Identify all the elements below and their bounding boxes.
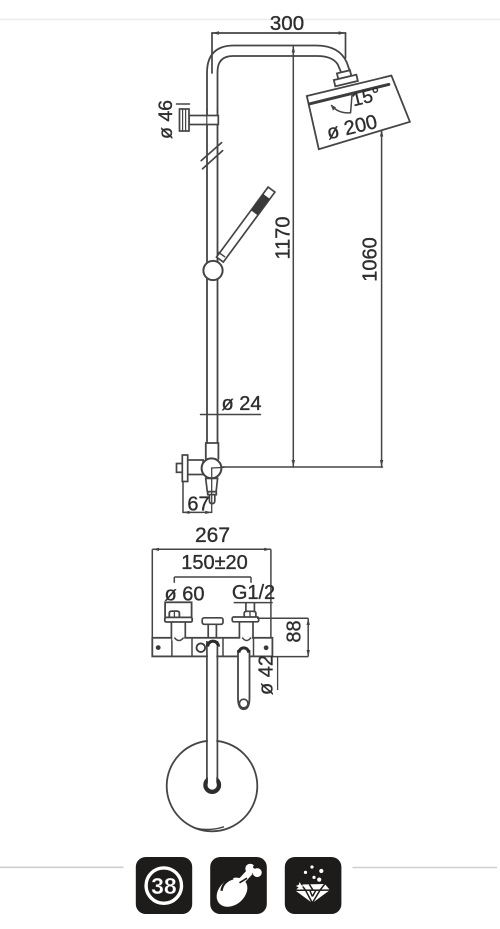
left neck notch [172, 637, 184, 641]
dim 267 [152, 549, 271, 638]
body screw dots [156, 645, 161, 650]
valve joint line [206, 442, 219, 444]
sparkles [296, 882, 304, 890]
shower head face plate line [310, 84, 389, 103]
hub ring [205, 778, 219, 792]
dia42 tube front view [238, 650, 250, 709]
dim 67 [182, 481, 184, 512]
dia24 leader [201, 414, 261, 416]
svg-text:88: 88 [284, 620, 306, 642]
svg-text:300: 300 [270, 12, 304, 35]
slider [203, 261, 222, 280]
icon 38C thermostatic [136, 857, 192, 914]
svg-text:ø 46: ø 46 [155, 100, 177, 139]
centre line down to 67 [211, 468, 213, 512]
dia46 leader [177, 103, 190, 105]
big shower plate circle [167, 741, 258, 832]
svg-text:ø 24: ø 24 [221, 393, 261, 415]
mixer body [152, 638, 272, 657]
wire: 1170 extension line [292, 46, 294, 468]
valve handle [206, 478, 218, 503]
dim 150+-20 [174, 577, 251, 583]
right valve bonnet [234, 602, 273, 604]
dim 88 [257, 618, 308, 656]
svg-text:ø 42: ø 42 [256, 655, 278, 695]
icon drumstick [210, 857, 267, 914]
dia42 extension line [277, 657, 279, 690]
wire: 1060 extension line [381, 130, 383, 468]
dim 300 arrows [212, 31, 346, 34]
valve wall flange [177, 455, 204, 482]
wall bracket dia46 [180, 109, 219, 131]
dim 300 line [212, 33, 346, 73]
riser tube front view [208, 640, 216, 788]
15 degree arc [351, 93, 353, 113]
plate bottom seam [194, 827, 224, 830]
riser pipe top bend (outer) [207, 46, 350, 111]
shower head [307, 76, 410, 150]
riser pipe lower section [206, 279, 208, 443]
wire: bottom reference line [212, 466, 383, 468]
hand shower wand [217, 187, 275, 262]
dim 1170/1060 arrows [292, 46, 384, 468]
pipe break marks [201, 143, 221, 161]
icon diamond [285, 857, 342, 914]
grey rule right [353, 867, 498, 869]
right valve neck [238, 622, 240, 639]
svg-text:1170: 1170 [273, 216, 295, 259]
diamond silhouette [295, 884, 330, 903]
dia42 tube end circle [239, 699, 248, 708]
svg-text:67: 67 [187, 494, 209, 516]
svg-text:150±20: 150±20 [181, 552, 248, 574]
svg-text:38: 38 [151, 873, 177, 899]
hand shower joint line [219, 252, 225, 256]
svg-text:1060: 1060 [360, 237, 382, 282]
dia42 tube dome [239, 648, 249, 653]
shower head connector [332, 69, 357, 86]
left valve bonnet [165, 602, 192, 622]
left valve neck [170, 622, 172, 639]
grey rule left [0, 866, 124, 868]
right neck notch [240, 637, 252, 641]
valve body [202, 458, 222, 478]
riser pipe top bend (inner) [218, 56, 341, 110]
svg-text:G1/2: G1/2 [232, 582, 275, 604]
riser pipe upper section [206, 110, 208, 262]
leader from valve centre [212, 466, 225, 469]
centre control [202, 618, 223, 625]
riser tube dome [208, 641, 219, 646]
body small circle [197, 643, 206, 652]
faint page rule top [0, 19, 500, 21]
svg-text:267: 267 [195, 524, 230, 547]
hand shower dark band [251, 194, 270, 215]
